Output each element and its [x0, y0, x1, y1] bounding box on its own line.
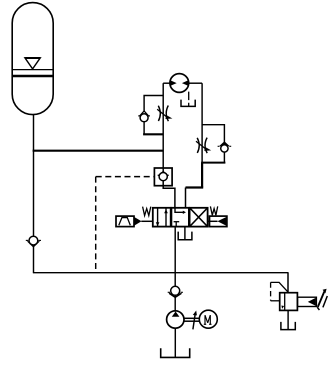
check valve in F2 ball [221, 145, 228, 152]
wire T port stub [184, 227, 186, 240]
relief valve R1 drain line [287, 310, 289, 329]
solenoid S2 push arrow [208, 220, 218, 222]
wire accumulator stem vertical [33, 115, 35, 273]
spring left W [143, 207, 151, 216]
throttle F2 arcs [197, 138, 199, 153]
relief valve tank symbol [281, 322, 295, 330]
wire A-line jog from V2 to valve port A [163, 181, 175, 208]
wire B-line jog to valve port B [201, 163, 203, 188]
solenoid S2 box right [210, 216, 227, 227]
D1 square1 flow path down [157, 208, 159, 226]
relief valve R1 feed line [287, 273, 289, 293]
rotation arrow arc [193, 313, 196, 330]
wire bottom pressure bus horizontal [33, 272, 289, 274]
D1 square2 path A with arrow [175, 208, 184, 212]
wire P port down from valve [174, 227, 176, 312]
accumulator separator line thin [13, 69, 53, 71]
wire A-line vertical from motor left port [162, 83, 164, 172]
spring right W [210, 206, 217, 215]
solenoid S1 push arrow [134, 217, 142, 226]
D1 square3 crossed paths X [190, 208, 207, 226]
directional valve D1 position square 1 [153, 208, 171, 227]
wire B-line vertical from motor right port [201, 83, 203, 187]
relief valve R1 spring box [298, 297, 317, 306]
relief valve R1 body [280, 293, 298, 311]
hydraulic motor M1 circle [170, 74, 189, 93]
flow control F2 bypass loop bottom [223, 152, 225, 163]
throttle F1 arcs [158, 106, 160, 121]
electric motor EM circle [199, 310, 217, 328]
motor drain tank symbol [181, 100, 195, 107]
solenoid S1 box left [116, 216, 134, 227]
accumulator gas triangle [25, 58, 40, 69]
pump shaft lines [184, 317, 200, 319]
motor M1 flow triangle right [182, 80, 188, 85]
flow control F1 bypass loop top [144, 96, 163, 112]
relief valve R1 poppet arrow [308, 298, 316, 306]
D1 square1 flow path up [165, 208, 167, 226]
wire pump suction [174, 328, 176, 357]
directional valve D1 position square 3 [190, 208, 208, 227]
check valve V1 seat on accumulator line [26, 240, 41, 247]
throttle F2 adjust arrow [196, 141, 206, 149]
electric motor letter M [204, 315, 212, 324]
D1 square2 blocked P port [174, 221, 180, 223]
flow control F1 bypass loop bottom [143, 122, 145, 135]
motor M1 flow triangle left [171, 80, 177, 85]
pump P1 outlet triangle [172, 312, 180, 317]
relief valve R1 internal path [284, 293, 286, 310]
check valve V2 seat [158, 172, 169, 176]
pump P1 circle [167, 311, 184, 328]
motor M1 drain line dashed [188, 92, 190, 107]
hydraulic motor M1 port lines [163, 82, 170, 84]
valve tank symbol [178, 232, 192, 240]
solenoid S1 coil symbol [119, 218, 131, 226]
pilot line dashed vertical [95, 177, 97, 273]
accumulator A1 shell [12, 3, 53, 115]
relief valve R1 spring adjust arrow [318, 291, 325, 307]
pilot line dashed horizontal [96, 176, 155, 178]
main tank symbol [161, 348, 190, 357]
check valve in F2 seat filled [218, 141, 232, 146]
relief valve R1 pilot line [271, 282, 288, 292]
wire thick supply horizontal [33, 150, 164, 152]
pilot operated check valve V2 body [154, 168, 172, 186]
check valve V1 ball [29, 236, 38, 245]
directional valve D1 position square 2 center [171, 208, 189, 227]
check valve in F1 seat [138, 111, 150, 116]
accumulator separator line thick [13, 75, 53, 78]
flow control F2 bypass loop top [202, 125, 224, 143]
throttle F1 adjust arrow [157, 109, 167, 117]
check valve V3 seat on pump line [168, 292, 183, 297]
check valve V3 ball [171, 286, 180, 295]
check valve in F1 ball [140, 114, 148, 122]
check valve V2 ball [159, 173, 167, 181]
